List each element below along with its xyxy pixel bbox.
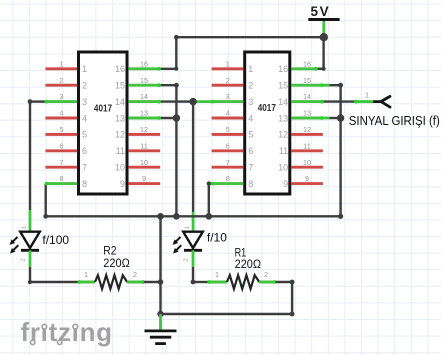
svg-text:1: 1: [60, 59, 64, 68]
svg-text:15: 15: [140, 76, 148, 85]
svg-text:f/10: f/10: [207, 230, 227, 244]
wire U1 pin15 to ground vertical: [159, 84, 176, 86]
wire U2 pin8 drop: [207, 181, 213, 216]
svg-text:11: 11: [116, 146, 125, 156]
wire clock node down to LED D2: [192, 102, 194, 212]
junction R2 right / ground stem: [158, 279, 164, 285]
pin U2.3 stub: [211, 92, 253, 107]
pin U2.13 stub: [278, 109, 323, 124]
bendpoint rail right end: [338, 214, 343, 219]
junction rail / ground stem: [157, 213, 164, 220]
connector J1 leg (green): [355, 100, 375, 103]
svg-text:f/100: f/100: [42, 233, 69, 247]
wire 5V right drop to U2 pin16: [322, 37, 324, 69]
svg-text:4: 4: [248, 113, 253, 123]
svg-text:13: 13: [115, 113, 125, 123]
ground stem vertical: [159, 216, 161, 314]
pin U2.12 stub: [278, 125, 323, 140]
svg-text:5: 5: [226, 125, 230, 134]
svg-text:10: 10: [140, 158, 148, 167]
svg-text:2: 2: [82, 81, 87, 91]
pin U2.14 stub: [278, 92, 323, 107]
pin U1.16 stub: [115, 59, 161, 74]
svg-text:8: 8: [82, 179, 87, 189]
bendpoint U1 pin15 corner: [174, 83, 179, 88]
svg-text:1: 1: [226, 59, 230, 68]
resistor R1: [191, 275, 293, 289]
svg-text:12: 12: [303, 125, 311, 134]
pin U2.8 stub: [211, 174, 253, 189]
pin U1.7 stub: [45, 158, 87, 173]
svg-text:4017: 4017: [258, 103, 277, 114]
pin U2.4 stub: [212, 109, 254, 124]
svg-text:13: 13: [303, 109, 311, 118]
svg-text:4: 4: [60, 109, 64, 118]
svg-text:13: 13: [140, 109, 148, 118]
wire 5V left drop to U1 pin16: [175, 37, 177, 69]
wire U1 pin14 to clock node: [159, 100, 193, 102]
svg-text:2: 2: [133, 270, 137, 279]
svg-text:14: 14: [303, 92, 311, 101]
svg-text:1: 1: [365, 91, 369, 100]
svg-text:2: 2: [183, 258, 190, 262]
pin U1.2 stub: [45, 76, 87, 91]
bendpoint 5V left corner: [174, 35, 179, 40]
svg-text:14: 14: [140, 92, 148, 101]
bendpoint U2 pin15 corner: [338, 83, 343, 88]
svg-text:6: 6: [226, 141, 230, 150]
svg-text:11: 11: [140, 141, 147, 150]
svg-text:3: 3: [60, 92, 64, 101]
svg-text:14: 14: [115, 97, 125, 107]
svg-text:1: 1: [215, 270, 219, 279]
resistor R2: [78, 275, 161, 289]
pin U1.3 stub: [45, 92, 87, 107]
junction U2 pin13 node: [337, 114, 344, 121]
svg-text:2: 2: [264, 270, 268, 279]
connector J1 female fork: [374, 96, 390, 107]
power symbol 5V: [308, 4, 339, 37]
svg-text:12: 12: [115, 130, 125, 140]
svg-text:4: 4: [82, 113, 87, 123]
svg-text:220Ω: 220Ω: [235, 257, 262, 271]
pin U2.7 stub: [212, 158, 254, 173]
pin U2.15 stub: [278, 76, 323, 91]
IC U1 4017 body: [79, 52, 128, 194]
svg-text:15: 15: [303, 76, 311, 85]
svg-text:2: 2: [226, 76, 230, 85]
svg-text:13: 13: [278, 113, 288, 123]
svg-text:1: 1: [82, 64, 87, 74]
LED D1 f/100: [10, 232, 40, 282]
wire U2 pins15-13 vertical drop: [339, 85, 341, 216]
svg-text:8: 8: [248, 179, 253, 189]
pin U1.12 stub: [115, 125, 160, 140]
svg-text:9: 9: [305, 174, 309, 183]
svg-text:9: 9: [120, 179, 125, 189]
bendpoint U2 pin16 corner: [322, 67, 326, 71]
svg-text:6: 6: [82, 146, 87, 156]
pin U1.9 stub: [120, 174, 160, 189]
svg-text:2: 2: [248, 81, 253, 91]
junction U1 pin13 node: [173, 114, 180, 121]
svg-text:7: 7: [248, 163, 253, 173]
svg-text:2: 2: [60, 76, 64, 85]
wire U2 pin14 to signal connector: [322, 100, 355, 102]
pin U1.13 stub: [115, 109, 161, 124]
svg-text:11: 11: [303, 141, 310, 150]
svg-text:1: 1: [248, 64, 253, 74]
pin U1.10 stub: [115, 158, 160, 173]
svg-text:6: 6: [60, 141, 64, 150]
svg-text:15: 15: [115, 81, 125, 91]
svg-text:6: 6: [248, 146, 253, 156]
svg-text:10: 10: [115, 163, 125, 173]
svg-text:9: 9: [142, 174, 146, 183]
wire 5V horizontal run: [176, 36, 323, 38]
bendpoint U1 pin3 corner: [28, 99, 33, 104]
pin U2.1 stub: [212, 59, 254, 74]
svg-text:1: 1: [21, 225, 28, 229]
pin U1.8 stub: [45, 174, 87, 189]
svg-text:16: 16: [140, 59, 148, 68]
svg-text:16: 16: [303, 59, 311, 68]
svg-text:2: 2: [20, 258, 27, 262]
svg-text:12: 12: [278, 130, 288, 140]
svg-text:16: 16: [278, 64, 288, 74]
svg-text:12: 12: [140, 125, 148, 134]
svg-text:5V: 5V: [311, 4, 331, 19]
svg-text:5: 5: [248, 130, 253, 140]
svg-text:11: 11: [279, 146, 288, 156]
pin U1.15 stub: [115, 76, 161, 91]
wire U1 pin13 link: [159, 117, 176, 119]
svg-text:8: 8: [60, 174, 64, 183]
svg-text:10: 10: [278, 163, 288, 173]
wire U1 pin16 stub link: [159, 68, 176, 70]
wire LED D1 to R2: [30, 281, 78, 283]
junction clock node: [189, 98, 196, 105]
pin U2.5 stub: [212, 125, 254, 140]
svg-text:7: 7: [60, 158, 64, 167]
svg-text:4017: 4017: [94, 104, 113, 115]
pin U1.4 stub: [45, 109, 87, 124]
ground symbol: [145, 314, 177, 344]
pin U1.14 stub: [115, 92, 161, 107]
fritzing watermark: [21, 317, 113, 347]
wire U1 pin8 down to ground rail: [45, 184, 47, 217]
svg-text:7: 7: [226, 158, 230, 167]
bendpoint rail left end: [43, 214, 48, 219]
wire clock node to U2 pin3 (green): [193, 100, 213, 103]
junction rail / U1 pin15-13 drop: [173, 213, 180, 220]
pin U2.2 stub: [212, 76, 254, 91]
wire U2 pin15 corner: [322, 84, 330, 87]
bendpoint U1 pin16 corner: [174, 67, 178, 71]
svg-text:16: 16: [115, 64, 125, 74]
svg-text:15: 15: [278, 81, 288, 91]
pin U1.6 stub: [45, 141, 87, 156]
svg-text:9: 9: [283, 179, 288, 189]
junction ground node: [157, 311, 163, 317]
svg-text:10: 10: [303, 158, 311, 167]
svg-text:14: 14: [278, 97, 288, 107]
svg-text:5: 5: [60, 125, 64, 134]
pin U2.11 stub: [279, 141, 323, 156]
wire bottom return R1: [161, 313, 293, 315]
svg-text:1: 1: [184, 225, 191, 229]
LED D2 f/10: [173, 232, 203, 282]
svg-text:1: 1: [84, 270, 88, 279]
pin U2.16 stub: [278, 59, 318, 74]
svg-text:3: 3: [248, 97, 253, 107]
svg-text:4: 4: [226, 109, 230, 118]
IC U2 4017 body: [245, 52, 290, 194]
junction 5V node: [320, 33, 328, 41]
svg-text:5: 5: [82, 130, 87, 140]
ground rail: [46, 215, 341, 217]
svg-text:SINYAL GIRIŞI (f): SINYAL GIRIŞI (f): [349, 113, 440, 128]
svg-text:8: 8: [226, 174, 230, 183]
pin U2.9 stub: [283, 174, 323, 189]
pin U1.1 stub: [45, 59, 87, 74]
wire U1 pin3 to LED D1: [30, 100, 46, 102]
pin U2.10 stub: [278, 158, 323, 173]
wire U2 pin13 link: [322, 117, 330, 120]
svg-text:220Ω: 220Ω: [103, 256, 130, 270]
pin U2.6 stub: [212, 141, 254, 156]
svg-text:3: 3: [82, 97, 87, 107]
svg-text:7: 7: [82, 163, 87, 173]
pin U1.11 stub: [116, 141, 161, 156]
svg-text:3: 3: [226, 92, 230, 101]
junction rail / U2 pin8 drop: [206, 213, 213, 220]
pin U1.5 stub: [45, 125, 87, 140]
